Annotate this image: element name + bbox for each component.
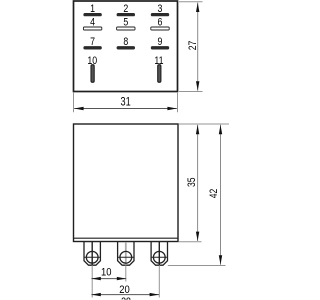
svg-text:28: 28	[121, 296, 131, 300]
pin 8 slot	[117, 46, 135, 49]
dim 28 text (cut off at bottom edge)	[121, 296, 131, 300]
pin 1 slot	[83, 13, 101, 16]
pin 9 slot	[151, 46, 169, 49]
pin 6 slot	[151, 27, 169, 30]
dim 10 text	[101, 267, 112, 279]
dim 27 text	[187, 41, 199, 51]
dim 42 bottom extension line (pin bottoms)	[168, 265, 226, 267]
dim 35/42 shared top extension line	[179, 123, 229, 125]
relay top view body outline	[74, 1, 178, 92]
pin 11 label	[154, 55, 164, 67]
pin 10 label	[87, 55, 97, 67]
pin 3 slot	[151, 13, 169, 16]
front view base seam line	[74, 237, 179, 239]
pin 2 slot	[117, 13, 135, 16]
pin 8 label	[123, 36, 128, 48]
dim 20 text	[119, 285, 130, 297]
pin C (right) front view	[151, 242, 168, 266]
pin 7 label	[90, 36, 95, 48]
pin 5 slot	[117, 27, 135, 30]
dim 10 line	[91, 277, 126, 280]
pin C centre extension line	[158, 265, 160, 297]
svg-text:42: 42	[208, 189, 220, 199]
pin 10 slot (vertical)	[91, 65, 94, 83]
svg-text:20: 20	[119, 285, 130, 297]
svg-text:35: 35	[186, 177, 198, 187]
pin 1 label	[90, 3, 95, 15]
pin 3 label	[158, 3, 163, 15]
pin B centre extension line	[125, 265, 127, 281]
pin B (middle) front view	[117, 242, 134, 266]
pin 9 label	[158, 36, 163, 48]
dim 35 text	[186, 177, 198, 187]
pin 4 slot	[83, 27, 101, 30]
pin 2 label	[123, 3, 128, 15]
pin 7 slot	[83, 46, 101, 49]
svg-text:10: 10	[101, 267, 112, 279]
dim 27 extension line top	[179, 1, 203, 3]
pin 11 slot (vertical)	[158, 65, 161, 83]
pin A (left) front view	[84, 242, 101, 266]
dim 35 bottom extension line	[179, 241, 202, 243]
dim 27 extension line bottom	[179, 91, 203, 93]
pin 4 label	[90, 17, 95, 29]
pin 5 label	[123, 17, 128, 29]
dim 31 text	[120, 97, 130, 109]
dim 31 line	[74, 107, 177, 110]
pin 6 label	[158, 17, 163, 29]
svg-text:27: 27	[187, 41, 199, 51]
pin A centre extension line	[91, 265, 93, 297]
relay front view body outline	[74, 124, 179, 242]
svg-text:31: 31	[120, 97, 130, 109]
dim 20 line	[91, 293, 159, 296]
dim 42 text	[208, 189, 220, 199]
dim 42 line	[219, 125, 222, 265]
dim 31 extension line left	[73, 93, 75, 113]
dim 31 extension line right	[177, 93, 179, 113]
dim 27 line	[196, 3, 199, 91]
dim 35 line	[196, 125, 199, 241]
